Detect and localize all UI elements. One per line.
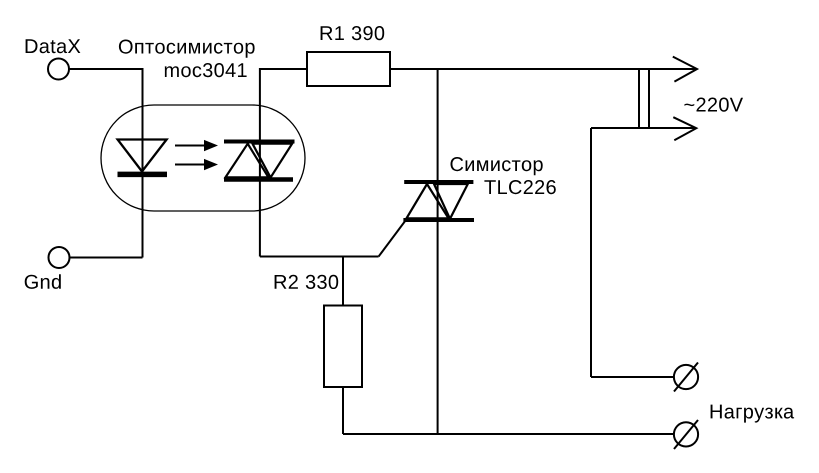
connector plug bar left bbox=[638, 69, 640, 128]
resistor R1 bbox=[307, 52, 390, 86]
wire R2 top lead bbox=[342, 257, 344, 307]
triac VS1 TLC226 bbox=[379, 182, 474, 257]
resistor R2 bbox=[324, 306, 362, 388]
label Симистор bbox=[451, 157, 543, 175]
label R2 330 bbox=[275, 275, 339, 289]
label Нагрузка bbox=[711, 405, 795, 423]
wire mains return to load terminal bbox=[591, 376, 673, 378]
wire opto-triac bottom to gate bbox=[260, 256, 379, 258]
triac top bar bbox=[404, 180, 473, 184]
triac down triangle bbox=[434, 184, 468, 219]
wire bottom rail to load terminal bbox=[343, 433, 674, 435]
wire LED vertical (anode through cathode down) bbox=[142, 68, 144, 258]
node load terminal upper bbox=[674, 363, 698, 392]
opto-triac bottom bar bbox=[224, 177, 293, 181]
node DataX terminal bbox=[48, 59, 69, 80]
label Оптосимистор bbox=[119, 40, 255, 58]
triac bottom bar bbox=[403, 218, 474, 222]
label Gnd bbox=[25, 274, 61, 289]
arrow mains top chevron bbox=[673, 57, 697, 82]
wire R1 to mains top bbox=[390, 68, 697, 70]
arrow light 2 bbox=[175, 159, 218, 170]
triac gate lead bbox=[379, 221, 406, 257]
wire DataX to LED anode (horizontal) bbox=[69, 68, 143, 70]
arrow mains bottom chevron bbox=[673, 117, 696, 140]
node Gnd terminal bbox=[49, 247, 70, 268]
opto-triac top bar bbox=[224, 140, 295, 144]
optocoupler U1 body (stadium outline) bbox=[101, 105, 305, 211]
diode LED of optocoupler bbox=[118, 140, 167, 172]
label TLC226 bbox=[484, 180, 555, 194]
label moc3041 bbox=[165, 63, 247, 77]
wire mains return vertical bbox=[590, 128, 592, 377]
wire triac MT2 vertical bbox=[437, 68, 439, 435]
opto-triac up triangle bbox=[226, 144, 269, 178]
label R1 390 bbox=[321, 26, 385, 40]
node load terminal lower bbox=[674, 420, 698, 449]
wire opto-triac top to R1 bbox=[260, 68, 307, 70]
label DataX bbox=[26, 39, 81, 53]
wire LED cathode to Gnd (horizontal) bbox=[70, 257, 143, 259]
wire R2 bottom lead bbox=[342, 387, 344, 434]
LED cathode bar bbox=[118, 172, 168, 178]
label ~220V bbox=[684, 98, 743, 112]
connector plug bar right bbox=[648, 69, 650, 128]
wire mains bottom horizontal bbox=[591, 127, 696, 129]
arrow light 1 bbox=[175, 140, 218, 151]
triac up triangle bbox=[407, 184, 449, 218]
opto-triac down triangle bbox=[253, 144, 293, 178]
opto-triac output element bbox=[224, 142, 295, 180]
wire opto-triac vertical (through body) bbox=[259, 68, 261, 257]
